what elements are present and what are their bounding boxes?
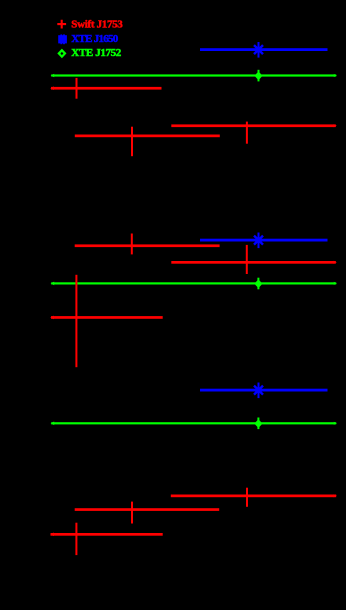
panel3 green y-error bar xyxy=(257,418,259,430)
panel1 green diamond marker xyxy=(255,72,262,79)
panel2 red point C x-error bar xyxy=(51,316,163,319)
panel3 red point B right arrow xyxy=(334,494,337,497)
panel2 green y-error bar xyxy=(257,278,259,290)
panel1 red point C y-error bar xyxy=(131,127,133,157)
panel2 blue x-error bar xyxy=(200,239,328,242)
svg-text:XTE J1752: XTE J1752 xyxy=(71,47,122,59)
panel3 blue asterisk marker xyxy=(254,386,263,395)
panel1 green left arrow xyxy=(51,74,55,78)
panel1 green y-error bar xyxy=(258,70,260,82)
panel2 green x-error bar xyxy=(51,282,336,284)
panel2 red point C left arrow xyxy=(50,316,54,320)
panel2 blue asterisk marker xyxy=(254,236,263,245)
legend marker plus (Swift J1753) xyxy=(57,20,66,29)
panel1 red point A x-error bar xyxy=(51,87,162,90)
panel3 red point B y-error bar xyxy=(246,488,248,507)
panel2 red point B right arrow xyxy=(334,261,337,264)
svg-text:Swift J1753: Swift J1753 xyxy=(71,19,123,31)
panel3 red point B x-error bar xyxy=(171,495,336,498)
panel1 blue y-error bar xyxy=(258,42,260,58)
panel3 blue y-error bar xyxy=(258,383,260,399)
panel3 red point D left arrow xyxy=(50,533,54,537)
panel2 red point C y-error bar xyxy=(75,275,77,367)
panel1 green x-error bar xyxy=(51,74,336,76)
panel2 red point A y-error bar xyxy=(131,234,133,255)
panel2 blue y-error bar xyxy=(258,233,260,249)
panel3 green x-error bar xyxy=(51,422,336,424)
svg-text:XTE J1650: XTE J1650 xyxy=(71,33,119,45)
panel3 red point C y-error bar xyxy=(131,502,133,524)
panel1 red point B y-error bar xyxy=(246,122,248,144)
panel1 red point B x-error bar xyxy=(171,124,335,127)
panel3 green left arrow xyxy=(51,422,55,426)
panel1 red point A y-error bar xyxy=(76,78,78,99)
legend marker asterisk (XTE J1650) xyxy=(58,35,67,43)
panel1 red point A left arrow xyxy=(50,86,54,90)
panel2 green diamond marker xyxy=(255,280,262,287)
panel2 red point A x-error bar xyxy=(75,244,220,247)
panel2 red point B x-error bar xyxy=(171,261,335,264)
panel2 green right arrow xyxy=(334,282,337,285)
panel1 blue x-error bar xyxy=(200,48,328,51)
legend marker diamond (XTE J1752) xyxy=(57,49,66,59)
panel3 red point D y-error bar xyxy=(75,523,77,555)
panel3 green diamond marker xyxy=(255,420,262,427)
panel1 green right arrow xyxy=(334,74,337,77)
panel2 red point B y-error bar xyxy=(246,245,248,274)
panel3 red point D x-error bar xyxy=(51,533,163,536)
panel3 red point C x-error bar xyxy=(75,508,220,511)
panel1 blue asterisk marker xyxy=(254,45,263,54)
panel1 red point B right arrow xyxy=(334,124,337,127)
panel3 green right arrow xyxy=(334,422,337,425)
panel2 green left arrow xyxy=(51,282,55,286)
panel1 red point C x-error bar xyxy=(75,135,220,138)
panel3 blue x-error bar xyxy=(200,389,328,392)
